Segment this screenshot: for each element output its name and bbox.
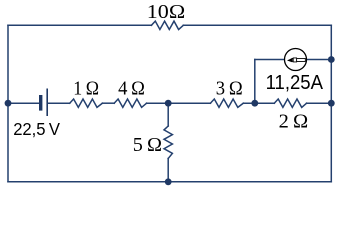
wire R1 to R2	[102, 102, 114, 104]
resistor R3 3ohm zigzag	[210, 99, 243, 107]
svg-text:4 Ω: 4 Ω	[118, 78, 145, 100]
resistor R1 1ohm zigzag	[70, 99, 103, 107]
wire right edge	[330, 25, 332, 182]
wire middle-left to battery	[8, 102, 39, 104]
svg-text:5 Ω: 5 Ω	[133, 134, 162, 156]
node E dot (bottom of 5ohm branch)	[165, 178, 172, 185]
wire top-right segment	[183, 24, 331, 26]
battery voltage source 22,5V negative plate (short thick bar)	[39, 95, 42, 111]
wire R2 to node B	[147, 102, 211, 104]
wire current source branch horizontal	[255, 59, 331, 61]
resistor R2 4ohm zigzag	[114, 99, 146, 107]
wire R5 to bottom edge	[167, 159, 169, 182]
svg-text:11,25A: 11,25A	[266, 71, 324, 94]
resistor R 10ohm zigzag	[151, 21, 183, 29]
current source I1 arrow notch bump	[293, 58, 296, 62]
wire node C up (current source branch vertical)	[254, 60, 256, 104]
svg-text:2 Ω: 2 Ω	[279, 110, 309, 132]
node F dot (right edge, current source branch)	[328, 56, 335, 63]
svg-text:22,5 V: 22,5 V	[13, 119, 60, 139]
resistor R5 5ohm vertical zigzag	[164, 126, 172, 159]
node D dot (right edge, middle branch)	[328, 100, 335, 107]
node C dot (middle branch / current source branch)	[251, 100, 258, 107]
node B dot (middle branch / 5ohm top)	[165, 100, 172, 107]
svg-text:3 Ω: 3 Ω	[216, 78, 243, 100]
wire bottom edge	[8, 181, 331, 183]
wire node B down to R5	[167, 103, 169, 126]
wire R4 to right edge	[307, 102, 332, 104]
node A dot (left edge, middle branch)	[5, 100, 12, 107]
resistor R4 2ohm zigzag	[274, 99, 306, 107]
svg-text:10Ω: 10Ω	[147, 1, 185, 23]
wire top-left segment	[8, 24, 151, 26]
current source I1 arrow shaft (hollow)	[292, 58, 305, 61]
battery voltage source 22,5V positive plate (long thin bar)	[46, 89, 48, 117]
wire left edge	[7, 25, 9, 182]
wire battery to R1	[48, 102, 70, 104]
wire R3 to node C	[243, 102, 274, 104]
current source I1 arrow head (filled, pointing left)	[287, 58, 292, 62]
svg-text:1 Ω: 1 Ω	[73, 78, 99, 100]
current source I1 circle	[285, 49, 307, 71]
